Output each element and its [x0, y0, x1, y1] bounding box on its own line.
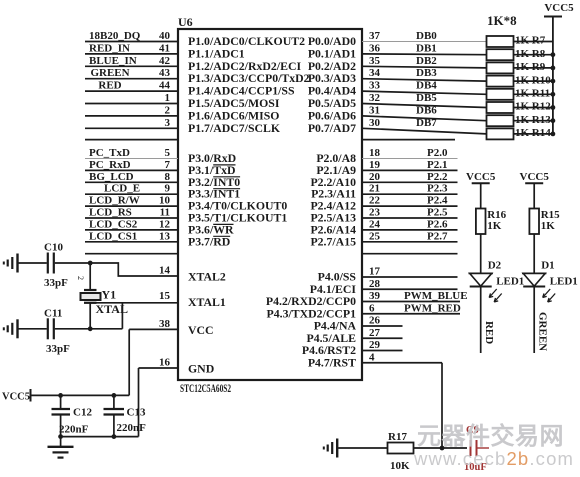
svg-text:33pF: 33pF	[46, 343, 70, 355]
svg-text:P2.7: P2.7	[427, 230, 448, 242]
svg-text:10: 10	[159, 195, 171, 207]
capacitor C9 10uF	[442, 425, 489, 473]
svg-text:P2.5: P2.5	[427, 207, 448, 219]
LED D1 LED1	[522, 260, 578, 303]
wire extra row line below pin 13	[85, 253, 178, 255]
svg-text:P2.6: P2.6	[427, 218, 448, 230]
power VCC5 above R16	[466, 171, 496, 209]
svg-text:LED1: LED1	[496, 276, 524, 288]
svg-text:22: 22	[369, 195, 381, 207]
svg-text:GREEN: GREEN	[537, 312, 549, 351]
wire pin 16 GND connection	[61, 368, 178, 437]
svg-text:33: 33	[369, 80, 381, 92]
svg-text:DB1: DB1	[416, 42, 437, 54]
capacitor C12 220nF	[52, 395, 93, 446]
svg-text:10K: 10K	[390, 460, 410, 472]
wire R15 to D1	[533, 234, 535, 273]
svg-text:VCC5: VCC5	[544, 2, 574, 14]
svg-text:11: 11	[160, 207, 170, 219]
svg-text:34: 34	[369, 67, 381, 79]
chip U6 pin names P0.0-P0.7	[308, 34, 356, 135]
svg-text:12: 12	[159, 218, 171, 230]
svg-text:LCD_R/W: LCD_R/W	[89, 195, 140, 207]
svg-text:21: 21	[369, 183, 380, 195]
svg-text:DB0: DB0	[416, 30, 437, 42]
svg-text:38: 38	[159, 318, 171, 330]
svg-text:VCC5: VCC5	[466, 171, 496, 183]
svg-text:35: 35	[369, 55, 381, 67]
wire pin 43 left net GREEN	[85, 67, 178, 79]
svg-text:DB3: DB3	[416, 67, 437, 79]
svg-text:36: 36	[369, 42, 381, 54]
node junction dot C13 top	[112, 393, 117, 398]
svg-text:2: 2	[76, 276, 85, 280]
wire pin 38 VCC connection	[129, 329, 178, 395]
svg-text:C12: C12	[73, 407, 92, 419]
svg-text:STC12C5A60S2: STC12C5A60S2	[180, 383, 231, 395]
ground for C10	[4, 254, 18, 273]
chip U6 pin names P4.0-P4.7	[266, 270, 357, 370]
wire pin 25 net P2.7	[362, 230, 458, 242]
wire pin 24 net P2.6	[362, 218, 458, 230]
wire pin 1 left	[85, 92, 178, 104]
svg-text:GND: GND	[188, 362, 214, 376]
svg-text:DB6: DB6	[416, 104, 437, 116]
svg-text:1: 1	[165, 92, 171, 104]
svg-text:DB5: DB5	[416, 92, 437, 104]
wire pin 36 net DB1	[362, 42, 487, 54]
svg-text:P0.7/AD7: P0.7/AD7	[308, 121, 356, 135]
svg-text:20: 20	[369, 171, 381, 183]
svg-text:DB7: DB7	[416, 117, 437, 129]
svg-text:15: 15	[159, 290, 171, 302]
svg-text:XTAL1: XTAL1	[188, 295, 226, 309]
svg-text:3: 3	[165, 117, 171, 129]
svg-text:C13: C13	[127, 407, 146, 419]
svg-text:220nF: 220nF	[59, 424, 89, 436]
wire pin 3 left	[85, 117, 178, 129]
svg-text:25: 25	[369, 230, 381, 242]
wire R16 to D2	[480, 234, 482, 273]
svg-text:P2.0: P2.0	[427, 147, 448, 159]
MCU U6 body STC12C5A60S2	[178, 29, 362, 380]
wire pin 44 left net RED	[85, 80, 178, 92]
svg-text:30: 30	[369, 117, 381, 129]
wire pin 33 net DB4	[362, 80, 487, 95]
svg-text:LCD_CS1: LCD_CS1	[89, 230, 137, 242]
svg-text:4: 4	[369, 351, 375, 363]
svg-text:BLUE_IN: BLUE_IN	[89, 55, 137, 67]
wire pin 11 left net LCD_RS	[85, 207, 178, 219]
wire pin 37 net DB0	[362, 30, 487, 42]
svg-text:XTAL2: XTAL2	[188, 270, 226, 284]
svg-text:1K R13: 1K R13	[515, 114, 551, 126]
wire pin 34 net DB3	[362, 67, 487, 81]
svg-text:37: 37	[369, 30, 381, 42]
svg-text:1K R11: 1K R11	[515, 88, 550, 100]
wire D2 cathode net RED	[481, 287, 496, 354]
wire pin 32 net DB5	[362, 92, 487, 108]
wire pin 40 left net 18B20_DQ	[85, 30, 178, 42]
svg-text:P2.2: P2.2	[427, 171, 448, 183]
wire pin 7 left net PC_RxD	[85, 159, 178, 171]
svg-text:DB2: DB2	[416, 55, 437, 67]
wire pin 4 vertical to reset network	[441, 363, 443, 448]
svg-text:43: 43	[159, 67, 171, 79]
wire pin 5 left net PC_TxD	[85, 147, 178, 159]
wire pin 19 net P2.1	[362, 159, 458, 171]
svg-text:24: 24	[369, 218, 381, 230]
wire pin 27	[362, 327, 403, 339]
node junction dot C13 bottom	[112, 434, 117, 439]
svg-text:C10: C10	[44, 242, 63, 254]
svg-text:RED: RED	[98, 80, 121, 92]
junction dots on VCC5 rail	[551, 52, 556, 136]
wire pin 12 left net LCD_CS2	[85, 218, 178, 230]
svg-text:LCD_CS2: LCD_CS2	[89, 218, 138, 230]
resistor R8 1K	[487, 48, 553, 60]
power VCC5 bottom left	[2, 389, 129, 403]
wire pin 39 net PWM_BLUE	[362, 290, 468, 302]
svg-text:P2.3: P2.3	[427, 183, 448, 195]
svg-text:42: 42	[159, 55, 171, 67]
wire pin 4	[362, 351, 442, 363]
svg-text:1K*8: 1K*8	[487, 13, 517, 28]
svg-text:1K R8: 1K R8	[515, 48, 546, 60]
wire pin 13 left net LCD_CS1	[85, 230, 178, 242]
svg-text:RED_IN: RED_IN	[89, 42, 130, 54]
resistor R11 1K	[487, 88, 553, 100]
resistor R14 1K	[487, 127, 553, 139]
svg-text:6: 6	[369, 302, 375, 314]
wire pin 42 left net BLUE_IN	[85, 55, 178, 67]
svg-text:7: 7	[165, 159, 171, 171]
svg-text:R17: R17	[388, 431, 407, 443]
crystal Y1 XTAL	[76, 263, 128, 316]
svg-text:LCD_E: LCD_E	[104, 183, 140, 195]
svg-text:RED: RED	[483, 321, 495, 344]
svg-text:41: 41	[159, 42, 170, 54]
svg-text:P2.1: P2.1	[427, 159, 447, 171]
svg-text:39: 39	[369, 290, 381, 302]
wire pin 20 net P2.2	[362, 171, 458, 183]
svg-text:13: 13	[159, 230, 171, 242]
svg-text:27: 27	[369, 327, 381, 339]
wire pin 41 left net RED_IN	[85, 42, 178, 54]
svg-text:32: 32	[369, 92, 381, 104]
wire pin 22 net P2.4	[362, 195, 458, 207]
wire pin 18 net P2.0	[362, 147, 458, 159]
svg-text:16: 16	[159, 357, 171, 369]
svg-text:www.cecb2b.com: www.cecb2b.com	[413, 448, 574, 469]
svg-text:18: 18	[369, 147, 381, 159]
chip U6 pin names P1.0-P1.7	[188, 34, 310, 135]
node junction dot crystal bottom	[88, 326, 93, 331]
node junction dot C12 bottom	[58, 434, 63, 439]
resistor R13 1K	[487, 114, 553, 126]
svg-text:P4.7/RST: P4.7/RST	[308, 355, 356, 369]
svg-text:44: 44	[159, 80, 171, 92]
svg-text:1K R7: 1K R7	[515, 35, 546, 47]
wire extra row line below pin 30	[362, 139, 455, 141]
svg-text:P1.7/ADC7/SCLK: P1.7/ADC7/SCLK	[188, 121, 281, 135]
svg-text:P2.4: P2.4	[427, 195, 448, 207]
svg-text:元器件交易网: 元器件交易网	[417, 422, 564, 450]
wire pin 21 net P2.3	[362, 183, 458, 195]
svg-text:PWM_RED: PWM_RED	[404, 302, 461, 314]
node junction dot reset	[440, 446, 445, 451]
svg-text:VCC5: VCC5	[520, 171, 550, 183]
svg-text:31: 31	[369, 104, 380, 116]
power VCC5 above R15	[520, 171, 550, 209]
wire pin 28	[362, 278, 458, 290]
wire extra row line below pin 25	[362, 253, 458, 255]
capacitor C10 33pF	[19, 242, 91, 290]
wire pin 29	[362, 339, 403, 351]
svg-text:LCD_RS: LCD_RS	[89, 207, 132, 219]
svg-text:5: 5	[165, 147, 171, 159]
node junction dot C12 top	[58, 393, 63, 398]
svg-text:U6: U6	[178, 15, 193, 29]
svg-text:2: 2	[165, 104, 171, 116]
chip U6 pin names P2.0-P2.7	[310, 151, 356, 248]
wire pin 9 left net LCD_E	[85, 183, 178, 195]
svg-text:40: 40	[159, 30, 171, 42]
ground below C12	[48, 447, 74, 458]
wire pin 15 XTAL1 connection	[90, 303, 178, 329]
resistor R17 10K	[338, 431, 442, 472]
svg-text:Y1: Y1	[102, 288, 117, 302]
svg-text:19: 19	[369, 159, 381, 171]
ground for R17	[324, 439, 337, 458]
power VCC5 top right	[544, 2, 574, 134]
wire D1 cathode net GREEN	[534, 287, 549, 354]
svg-text:28: 28	[369, 278, 381, 290]
wire pin 8 left net BG_LCD	[85, 171, 178, 183]
svg-text:1K R10: 1K R10	[515, 74, 551, 86]
svg-text:C11: C11	[44, 308, 62, 320]
svg-text:GREEN: GREEN	[90, 67, 129, 79]
svg-text:8: 8	[165, 171, 171, 183]
resistor R15 1K	[529, 209, 560, 235]
svg-text:D1: D1	[541, 260, 554, 272]
svg-text:23: 23	[369, 207, 381, 219]
resistor R16 1K	[476, 209, 507, 235]
capacitor C11 33pF	[19, 308, 91, 356]
svg-text:PWM_BLUE: PWM_BLUE	[404, 290, 468, 302]
resistor R9 1K	[487, 61, 553, 73]
svg-text:17: 17	[369, 266, 381, 278]
svg-text:1K: 1K	[541, 220, 556, 232]
wire extra row line below pin 3	[85, 139, 178, 141]
svg-text:1K R9: 1K R9	[515, 61, 546, 73]
svg-text:VCC: VCC	[188, 323, 214, 337]
wire pin 31 net DB6	[362, 104, 487, 120]
wire pin 23 net P2.5	[362, 207, 458, 219]
wire pin 26	[362, 315, 403, 327]
svg-text:LED1: LED1	[550, 276, 578, 288]
LED D2 LED1	[469, 260, 525, 303]
wire pin 6 net PWM_RED	[362, 302, 461, 314]
svg-text:D2: D2	[488, 260, 502, 272]
svg-text:18B20_DQ: 18B20_DQ	[89, 30, 141, 42]
svg-text:33pF: 33pF	[44, 277, 68, 289]
svg-text:29: 29	[369, 339, 381, 351]
svg-text:9: 9	[165, 183, 171, 195]
resistor R7 1K	[487, 35, 553, 47]
svg-text:P2.7/A15: P2.7/A15	[310, 234, 356, 248]
resistor R10 1K	[487, 74, 553, 86]
capacitor C13 220nF	[104, 395, 147, 436]
svg-text:14: 14	[159, 265, 171, 277]
svg-text:26: 26	[369, 315, 381, 327]
ground for C11	[4, 319, 18, 338]
svg-text:PC_TxD: PC_TxD	[89, 147, 130, 159]
svg-text:220nF: 220nF	[117, 422, 147, 434]
resistor R12 1K	[487, 101, 553, 113]
svg-text:PC_RxD: PC_RxD	[89, 159, 131, 171]
chip U6 pin names P3.0-P3.7	[188, 151, 287, 248]
svg-text:1K R14: 1K R14	[515, 127, 551, 139]
wire pin 35 net DB2	[362, 55, 487, 68]
wire pin 14 XTAL2 connection	[90, 263, 178, 276]
svg-text:DB4: DB4	[416, 80, 437, 92]
wire pin 2 left	[85, 104, 178, 116]
svg-text:1K R12: 1K R12	[515, 101, 551, 113]
svg-text:BG_LCD: BG_LCD	[89, 171, 134, 183]
svg-text:VCC5: VCC5	[2, 392, 30, 403]
wire pin 17	[362, 266, 458, 278]
node junction dot crystal top	[88, 261, 93, 266]
wire pin 30 net DB7	[362, 117, 487, 134]
svg-text:1K: 1K	[487, 220, 502, 232]
wire pin 10 left net LCD_R/W	[85, 195, 178, 207]
